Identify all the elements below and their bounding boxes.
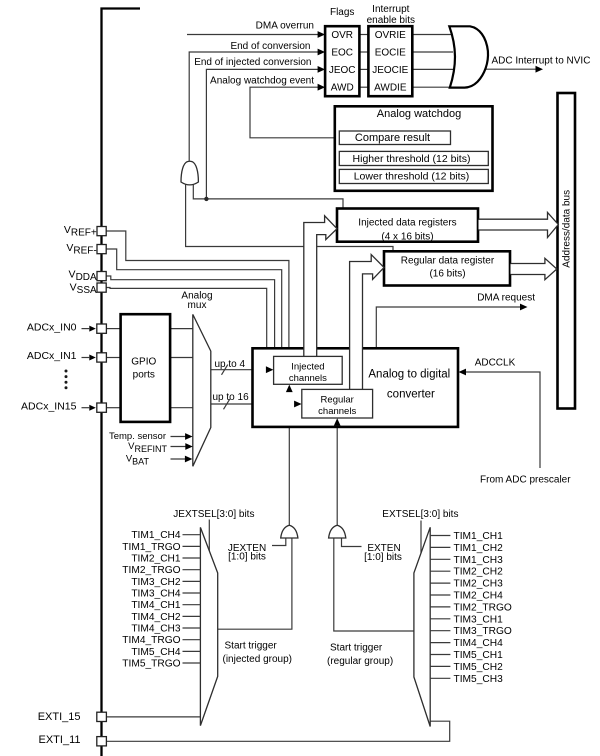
svg-text:TIM1_CH1: TIM1_CH1 bbox=[454, 531, 504, 542]
arrowhead JEXT trigger into injected channels bbox=[286, 385, 293, 393]
pad VSSA bbox=[97, 283, 106, 292]
svg-text:Temp. sensor: Temp. sensor bbox=[109, 431, 166, 442]
pad ADCx_IN1 bbox=[97, 353, 107, 362]
svg-text:TIM1_CH3: TIM1_CH3 bbox=[454, 555, 504, 566]
regular channels box bbox=[302, 389, 373, 418]
svg-text:Regular: Regular bbox=[321, 395, 354, 406]
node junction dot on JEOC net bbox=[204, 197, 208, 201]
wire EOC gate right input to JEOC net junction bbox=[193, 183, 206, 199]
pad ADCx_IN15 bbox=[97, 403, 107, 412]
right trigger mux input labels and stubs bbox=[454, 531, 512, 685]
svg-text:EXTSEL[3:0] bits: EXTSEL[3:0] bits bbox=[382, 509, 458, 520]
wire up to 4 (mux to injected channels) bbox=[211, 369, 268, 371]
wire EXTEN gate output (start trigger regular) up to Regular channels bbox=[336, 425, 338, 526]
wire EXTI_11 to right trigger mux bbox=[106, 721, 450, 741]
svg-text:ADCCLK: ADCCLK bbox=[475, 357, 516, 368]
arrowhead up to 4 into injected channels bbox=[266, 366, 274, 373]
svg-text:TIM4_CH4: TIM4_CH4 bbox=[454, 638, 504, 649]
wire OVRIE to OR gate bbox=[412, 34, 453, 36]
arrowhead ADCCLK into ADC block bbox=[459, 369, 467, 376]
hollow arrow: regular channels to regular data register bbox=[350, 255, 384, 389]
svg-text:TIM2_CH2: TIM2_CH2 bbox=[454, 567, 504, 578]
wire VREFINT arrow line bbox=[171, 446, 188, 448]
svg-text:TIM1_CH2: TIM1_CH2 bbox=[454, 543, 504, 554]
svg-text:TIM2_CH4: TIM2_CH4 bbox=[454, 591, 504, 602]
pad ADCx_IN0 bbox=[97, 324, 107, 333]
analog watchdog box bbox=[335, 106, 493, 191]
svg-text:(4 x 16 bits): (4 x 16 bits) bbox=[381, 232, 433, 243]
arrowhead DMA request bbox=[520, 304, 528, 311]
svg-text:Analog to digital: Analog to digital bbox=[368, 368, 450, 380]
svg-text:TIM2_CH1: TIM2_CH1 bbox=[131, 554, 181, 565]
or-gate U1 interrupt OR bbox=[449, 26, 488, 87]
svg-text:Start trigger: Start trigger bbox=[330, 643, 383, 654]
left trigger mux input labels and stubs bbox=[122, 530, 181, 669]
wire GPIO ports to analog mux row IN15 bbox=[170, 407, 193, 409]
wire temp sensor arrow line bbox=[171, 436, 188, 438]
wire up to 16 (mux to regular channels) bbox=[211, 403, 296, 405]
wire EOCIE to OR gate bbox=[412, 51, 453, 53]
injected channels box bbox=[274, 356, 343, 384]
wire VDDA to ADC block bbox=[106, 276, 275, 348]
svg-text:TIM5_CH3: TIM5_CH3 bbox=[454, 674, 504, 685]
wire VBAT arrow line bbox=[171, 458, 188, 460]
arrowhead temp sensor into mux bbox=[185, 433, 193, 440]
compare result box bbox=[339, 131, 450, 145]
wire GPIO ports to analog mux row IN0 bbox=[170, 328, 193, 330]
wire Analog watchdog event from Compare result to AWD flag bbox=[250, 87, 339, 138]
wire ADCx_IN15 pad to GPIO ports bbox=[106, 407, 120, 409]
pad EXTI_11 bbox=[97, 737, 107, 746]
wire AWDIE to OR gate bbox=[412, 86, 453, 88]
lower threshold box bbox=[339, 169, 488, 183]
line ADCx_IN1 arrow shaft bbox=[82, 357, 91, 359]
svg-text:OVR: OVR bbox=[331, 30, 353, 41]
and-gate U4 EXTEN bbox=[329, 525, 346, 538]
svg-text:channels: channels bbox=[318, 406, 356, 417]
ellipsis dots between ADCx_IN1 and ADCx_IN15 bbox=[65, 370, 68, 390]
injected data registers box bbox=[337, 209, 478, 242]
address/data bus bar bbox=[558, 93, 576, 409]
arrowhead ADCx_IN15 into pad bbox=[89, 405, 96, 411]
svg-text:End of injected conversion: End of injected conversion bbox=[194, 57, 311, 68]
svg-text:enable bits: enable bits bbox=[367, 15, 415, 26]
wire JEXT trigger: left mux output to JEXTEN gate input bbox=[218, 538, 292, 629]
svg-text:[1:0] bits: [1:0] bits bbox=[228, 552, 266, 563]
arrowhead DMA overrun into OVR bbox=[318, 31, 326, 38]
svg-text:TIM4_CH2: TIM4_CH2 bbox=[131, 612, 181, 623]
chip boundary edge bbox=[102, 9, 141, 756]
regular data register box bbox=[384, 251, 510, 285]
svg-text:Start trigger: Start trigger bbox=[225, 641, 278, 652]
wire JEXTSEL tick to left trigger mux bbox=[208, 520, 210, 553]
svg-text:TIM1_CH4: TIM1_CH4 bbox=[131, 530, 181, 541]
svg-text:DMA overrun: DMA overrun bbox=[256, 21, 314, 32]
svg-text:JEOCIE: JEOCIE bbox=[372, 65, 408, 76]
wire DMA overrun to OVR flag bbox=[187, 34, 319, 36]
svg-text:Interrupt: Interrupt bbox=[372, 4, 409, 15]
svg-text:TIM5_CH2: TIM5_CH2 bbox=[454, 662, 504, 673]
wire VREF+ to ADC block bbox=[106, 231, 289, 348]
svg-text:Regular data register: Regular data register bbox=[401, 256, 495, 267]
svg-text:[1:0] bits: [1:0] bits bbox=[364, 552, 402, 563]
svg-text:(regular group): (regular group) bbox=[327, 656, 393, 667]
GPIO ports box bbox=[121, 314, 171, 422]
svg-text:TIM2_TRGO: TIM2_TRGO bbox=[454, 602, 512, 613]
svg-text:TIM3_CH2: TIM3_CH2 bbox=[131, 577, 181, 588]
svg-text:Address/data bus: Address/data bus bbox=[562, 190, 573, 268]
wire EXTSEL tick to right trigger mux bbox=[420, 521, 422, 554]
wire flags box to interrupt enable box row AWD bbox=[359, 86, 368, 88]
svg-text:AWD: AWD bbox=[331, 83, 354, 94]
higher threshold box bbox=[339, 151, 488, 165]
wire JEXTEN bits stub bbox=[272, 538, 286, 546]
wire VREF- to ADC block bbox=[106, 249, 282, 348]
svg-text:ADCx_IN15: ADCx_IN15 bbox=[21, 400, 77, 412]
arrowhead up to 16 into regular channels bbox=[294, 401, 302, 408]
wire GPIO ports to analog mux row IN1 bbox=[170, 357, 193, 359]
arrowhead ADCx_IN1 into pad bbox=[89, 355, 96, 361]
slash on up to 4 wire bbox=[222, 365, 228, 375]
line ADCx_IN15 arrow shaft bbox=[82, 407, 91, 409]
svg-text:EXTI_15: EXTI_15 bbox=[38, 711, 81, 723]
arrowhead ADCx_IN0 into pad bbox=[89, 326, 96, 332]
hollow arrow: regular data register to address/data bus bbox=[511, 258, 557, 279]
right trigger mux trapezoid (regular group) bbox=[414, 527, 430, 726]
svg-text:EXTI_11: EXTI_11 bbox=[39, 734, 81, 746]
wire JEOC net to Injected data registers top bbox=[206, 199, 343, 209]
svg-text:mux: mux bbox=[188, 300, 207, 311]
analog to digital converter box bbox=[253, 348, 459, 427]
svg-text:ADCx_IN0: ADCx_IN0 bbox=[27, 321, 77, 333]
hollow arrow: injected channels to injected data registers bbox=[304, 216, 337, 356]
hollow arrow: injected data registers to address/data bus bbox=[479, 213, 559, 238]
svg-text:converter: converter bbox=[387, 389, 435, 401]
svg-text:JEOC: JEOC bbox=[329, 65, 356, 76]
pad EXTI_15 bbox=[97, 712, 107, 721]
svg-text:TIM3_CH4: TIM3_CH4 bbox=[131, 589, 181, 600]
wire EOC gate left input from Regular data register top bbox=[186, 183, 393, 251]
svg-text:channels: channels bbox=[289, 373, 327, 384]
svg-text:End of conversion: End of conversion bbox=[230, 41, 310, 52]
wire End of injected conversion (JEOC) from injected data registers to JEOC flag bbox=[206, 69, 319, 199]
wire flags box to interrupt enable box row JEOC bbox=[359, 68, 368, 70]
svg-text:Analog watchdog event: Analog watchdog event bbox=[210, 76, 314, 87]
svg-text:DMA request: DMA request bbox=[477, 292, 535, 303]
arrowhead ADC interrupt to NVIC bbox=[536, 66, 544, 73]
svg-text:TIM5_CH1: TIM5_CH1 bbox=[454, 650, 504, 661]
arrowhead VREFINT into mux bbox=[185, 443, 193, 450]
svg-text:OVRIE: OVRIE bbox=[375, 30, 406, 41]
arrowhead analog watchdog event into AWD bbox=[318, 84, 326, 91]
svg-text:TIM4_CH1: TIM4_CH1 bbox=[131, 600, 181, 611]
arrowhead EXT trigger into regular channels bbox=[334, 418, 341, 426]
pad VREF- bbox=[97, 245, 106, 254]
pad VREF+ bbox=[97, 227, 106, 236]
wires right trigger mux input stubs TIM1_CH1..TIM5_CH3 bbox=[430, 536, 450, 679]
wire DMA request from ADC block bbox=[376, 307, 521, 348]
svg-text:Injected: Injected bbox=[291, 362, 324, 373]
wire End of conversion (EOC OR-gate output up to EOC flag) bbox=[189, 52, 319, 161]
left trigger mux trapezoid (injected group) bbox=[200, 527, 217, 725]
svg-text:AWDIE: AWDIE bbox=[374, 83, 407, 94]
line ADCx_IN0 arrow shaft bbox=[82, 328, 91, 330]
wire ADCx_IN0 pad to GPIO ports bbox=[106, 328, 120, 330]
svg-text:VREFINT: VREFINT bbox=[128, 441, 167, 454]
svg-text:JEXTSEL[3:0] bits: JEXTSEL[3:0] bits bbox=[173, 509, 254, 520]
arrowhead end of injected conversion into JEOC bbox=[318, 66, 326, 73]
interrupt enable bits box bbox=[368, 26, 412, 96]
svg-text:Higher threshold (12 bits): Higher threshold (12 bits) bbox=[353, 153, 471, 165]
or-gate U2 end of conversion OR bbox=[181, 161, 198, 185]
svg-text:(injected group): (injected group) bbox=[223, 654, 292, 665]
wire JEXTEN gate output (start trigger injected) up to Injected channels bbox=[288, 391, 290, 526]
svg-text:From ADC prescaler: From ADC prescaler bbox=[480, 475, 571, 486]
svg-text:Compare result: Compare result bbox=[355, 132, 430, 144]
svg-text:up to 4: up to 4 bbox=[215, 359, 246, 370]
svg-text:GPIO: GPIO bbox=[131, 357, 156, 368]
svg-text:Flags: Flags bbox=[330, 7, 354, 18]
svg-text:VBAT: VBAT bbox=[126, 454, 150, 467]
svg-text:TIM3_TRGO: TIM3_TRGO bbox=[454, 626, 512, 637]
wires left trigger mux input stubs TIM1_CH4..TIM5_TRGO bbox=[183, 535, 201, 663]
svg-text:ports: ports bbox=[133, 370, 155, 381]
slash on up to 16 wire bbox=[224, 399, 230, 409]
svg-text:TIM2_CH3: TIM2_CH3 bbox=[454, 579, 504, 590]
flags box bbox=[325, 26, 359, 96]
svg-text:Lower threshold (12 bits): Lower threshold (12 bits) bbox=[354, 170, 470, 182]
wire flags box to interrupt enable box row EOC bbox=[359, 51, 368, 53]
svg-text:Injected data registers: Injected data registers bbox=[358, 218, 456, 229]
wire VSSA to ADC block bbox=[106, 288, 267, 349]
wire ADCx_IN1 pad to GPIO ports bbox=[106, 357, 120, 359]
svg-text:ADCx_IN1: ADCx_IN1 bbox=[27, 350, 77, 362]
svg-text:(16 bits): (16 bits) bbox=[429, 268, 465, 279]
svg-text:TIM4_TRGO: TIM4_TRGO bbox=[122, 635, 180, 646]
svg-text:up to 16: up to 16 bbox=[213, 392, 250, 403]
wire EXTI_15 to left trigger mux bbox=[106, 716, 200, 718]
svg-text:TIM5_CH4: TIM5_CH4 bbox=[131, 647, 181, 658]
wire flags box to interrupt enable box row OVR bbox=[359, 34, 368, 36]
pad VDDA bbox=[97, 272, 106, 281]
svg-text:EOCIE: EOCIE bbox=[375, 48, 406, 59]
wire ADCCLK from prescaler into ADC block bbox=[465, 372, 541, 468]
svg-text:ADC Interrupt to NVIC: ADC Interrupt to NVIC bbox=[492, 56, 591, 67]
svg-text:TIM2_TRGO: TIM2_TRGO bbox=[122, 565, 180, 576]
svg-text:Analog watchdog: Analog watchdog bbox=[377, 108, 461, 120]
arrowhead end of conversion into EOC bbox=[318, 49, 326, 56]
wire EXT trigger: right mux output to EXTEN gate input bbox=[334, 538, 414, 631]
svg-text:TIM1_TRGO: TIM1_TRGO bbox=[122, 542, 180, 553]
svg-text:TIM4_CH3: TIM4_CH3 bbox=[131, 624, 181, 635]
wire JEOCIE to OR gate bbox=[412, 68, 453, 70]
svg-text:TIM3_CH1: TIM3_CH1 bbox=[454, 614, 504, 625]
wire ADC interrupt to NVIC bbox=[486, 68, 538, 70]
svg-text:EOC: EOC bbox=[331, 48, 353, 59]
and-gate U3 JEXTEN bbox=[281, 525, 298, 538]
arrowhead VBAT into mux bbox=[185, 456, 193, 463]
analog mux trapezoid bbox=[193, 314, 211, 466]
svg-text:TIM5_TRGO: TIM5_TRGO bbox=[122, 659, 180, 670]
wire EXTEN bits stub bbox=[342, 538, 362, 547]
